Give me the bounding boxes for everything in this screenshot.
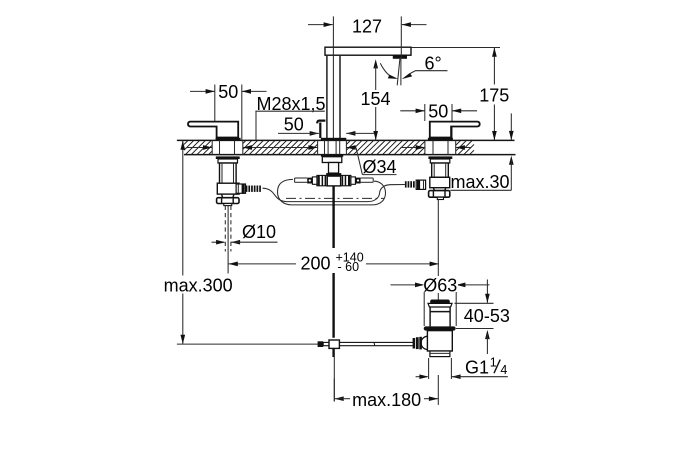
drain ball-joint knob rings <box>413 337 422 350</box>
left handle lever and body <box>188 122 238 138</box>
counter hole edges <box>212 140 456 154</box>
flexible hose inner run <box>263 185 405 202</box>
dimension 154 <box>373 59 378 68</box>
horizontal pop-up linkage rod <box>323 342 414 345</box>
spout column <box>326 56 328 138</box>
centre tee right tube <box>361 178 374 182</box>
faucet base plate <box>321 138 347 141</box>
6 degree arc right <box>405 73 411 78</box>
svg-text:4: 4 <box>500 363 507 377</box>
6 degree leader <box>410 71 447 74</box>
svg-text:Ø63: Ø63 <box>423 275 457 295</box>
centre tee right port nut <box>341 175 351 185</box>
6 degree lines <box>400 59 402 86</box>
rod below tee <box>332 348 334 357</box>
left valve side port + compression nut <box>236 184 245 194</box>
drain upper body <box>430 307 450 326</box>
drain lower body <box>427 331 452 351</box>
6 degree arc left <box>380 63 394 78</box>
Ø34 leader + label <box>356 148 362 175</box>
left handle base plate <box>216 138 241 141</box>
svg-text:max.30: max.30 <box>451 172 510 192</box>
right shank through counter <box>433 140 448 154</box>
rod level extension line <box>177 343 320 345</box>
aerator <box>393 55 407 59</box>
right corrugated hose stub <box>405 181 415 187</box>
dimension 50 middle <box>278 132 310 134</box>
svg-text:200: 200 <box>301 253 331 273</box>
dimension 127 <box>308 24 333 26</box>
Ø10 supply pipe (dashed) <box>225 206 231 252</box>
top extension line (spout outlet level) <box>411 47 500 49</box>
left shank through counter <box>220 140 235 154</box>
dimension 200 +140/-60 <box>229 263 296 265</box>
dimension 50 right <box>424 104 426 121</box>
max.30 dimension <box>510 113 512 140</box>
svg-text:127: 127 <box>352 17 382 37</box>
dimension 50 left <box>214 85 216 122</box>
127 right extension / aerator joint line <box>400 16 402 58</box>
drain plug dome <box>430 300 450 304</box>
svg-text:1: 1 <box>490 356 497 370</box>
right valve side port + compression nut <box>416 180 425 190</box>
linkage tee connector <box>329 340 339 348</box>
svg-text:Ø10: Ø10 <box>242 222 276 242</box>
left corrugated hose stub <box>246 186 261 192</box>
Ø34 hole arrows in counter <box>187 147 472 149</box>
right valve below counter <box>428 156 452 199</box>
drain outlet <box>430 351 450 357</box>
countertop top edge <box>177 139 515 141</box>
centre shank through counter <box>325 140 340 154</box>
left supply axis / 200 extension <box>227 206 229 274</box>
countertop bottom edge <box>184 154 516 156</box>
pop-up rod vertical <box>332 186 334 250</box>
hose dash-dot centreline <box>286 197 384 199</box>
max.300 dimension <box>182 141 184 344</box>
spout axis line (127 left reference + column centre) <box>332 16 334 138</box>
centre tee left fitting <box>312 177 317 184</box>
svg-text:max.180: max.180 <box>352 390 421 410</box>
centre tee left port nut <box>317 175 327 185</box>
drain ball joint <box>421 336 428 349</box>
svg-text:50: 50 <box>428 102 448 122</box>
svg-text:- 60: - 60 <box>338 260 360 274</box>
linkage clamp nut <box>318 341 324 347</box>
spout top bar <box>325 47 411 55</box>
G1 1/4 dimension <box>428 358 430 379</box>
drain seal ring <box>424 326 456 330</box>
right handle base plate <box>428 138 453 141</box>
pop-up lift rod knob <box>317 121 325 138</box>
left valve below counter <box>216 156 240 205</box>
centre valve below counter <box>321 155 343 186</box>
drain: Ø63 extension lines <box>423 280 425 326</box>
flexible hose outer loop <box>278 179 386 205</box>
dimension 175 <box>493 48 495 141</box>
svg-text:50: 50 <box>218 82 238 102</box>
right handle lever and body <box>430 122 480 138</box>
centre tee left tube <box>295 178 308 182</box>
countertop hatching <box>184 140 474 154</box>
right/drain axis line <box>437 200 439 277</box>
svg-text:G1: G1 <box>465 358 489 378</box>
40-53 dimension <box>486 280 488 303</box>
svg-text:6°: 6° <box>425 53 442 73</box>
svg-text:40-53: 40-53 <box>464 306 510 326</box>
drain flange <box>428 303 452 307</box>
max.180 dimension <box>333 379 335 402</box>
svg-text:max.300: max.300 <box>164 276 233 296</box>
Ø10 dimension <box>212 241 225 243</box>
Ø63 dimension <box>391 284 424 286</box>
centre tee right fitting <box>351 177 356 184</box>
svg-text:175: 175 <box>479 86 509 106</box>
svg-text:Ø34: Ø34 <box>363 157 397 177</box>
svg-text:50: 50 <box>284 115 304 135</box>
svg-text:154: 154 <box>360 89 390 109</box>
